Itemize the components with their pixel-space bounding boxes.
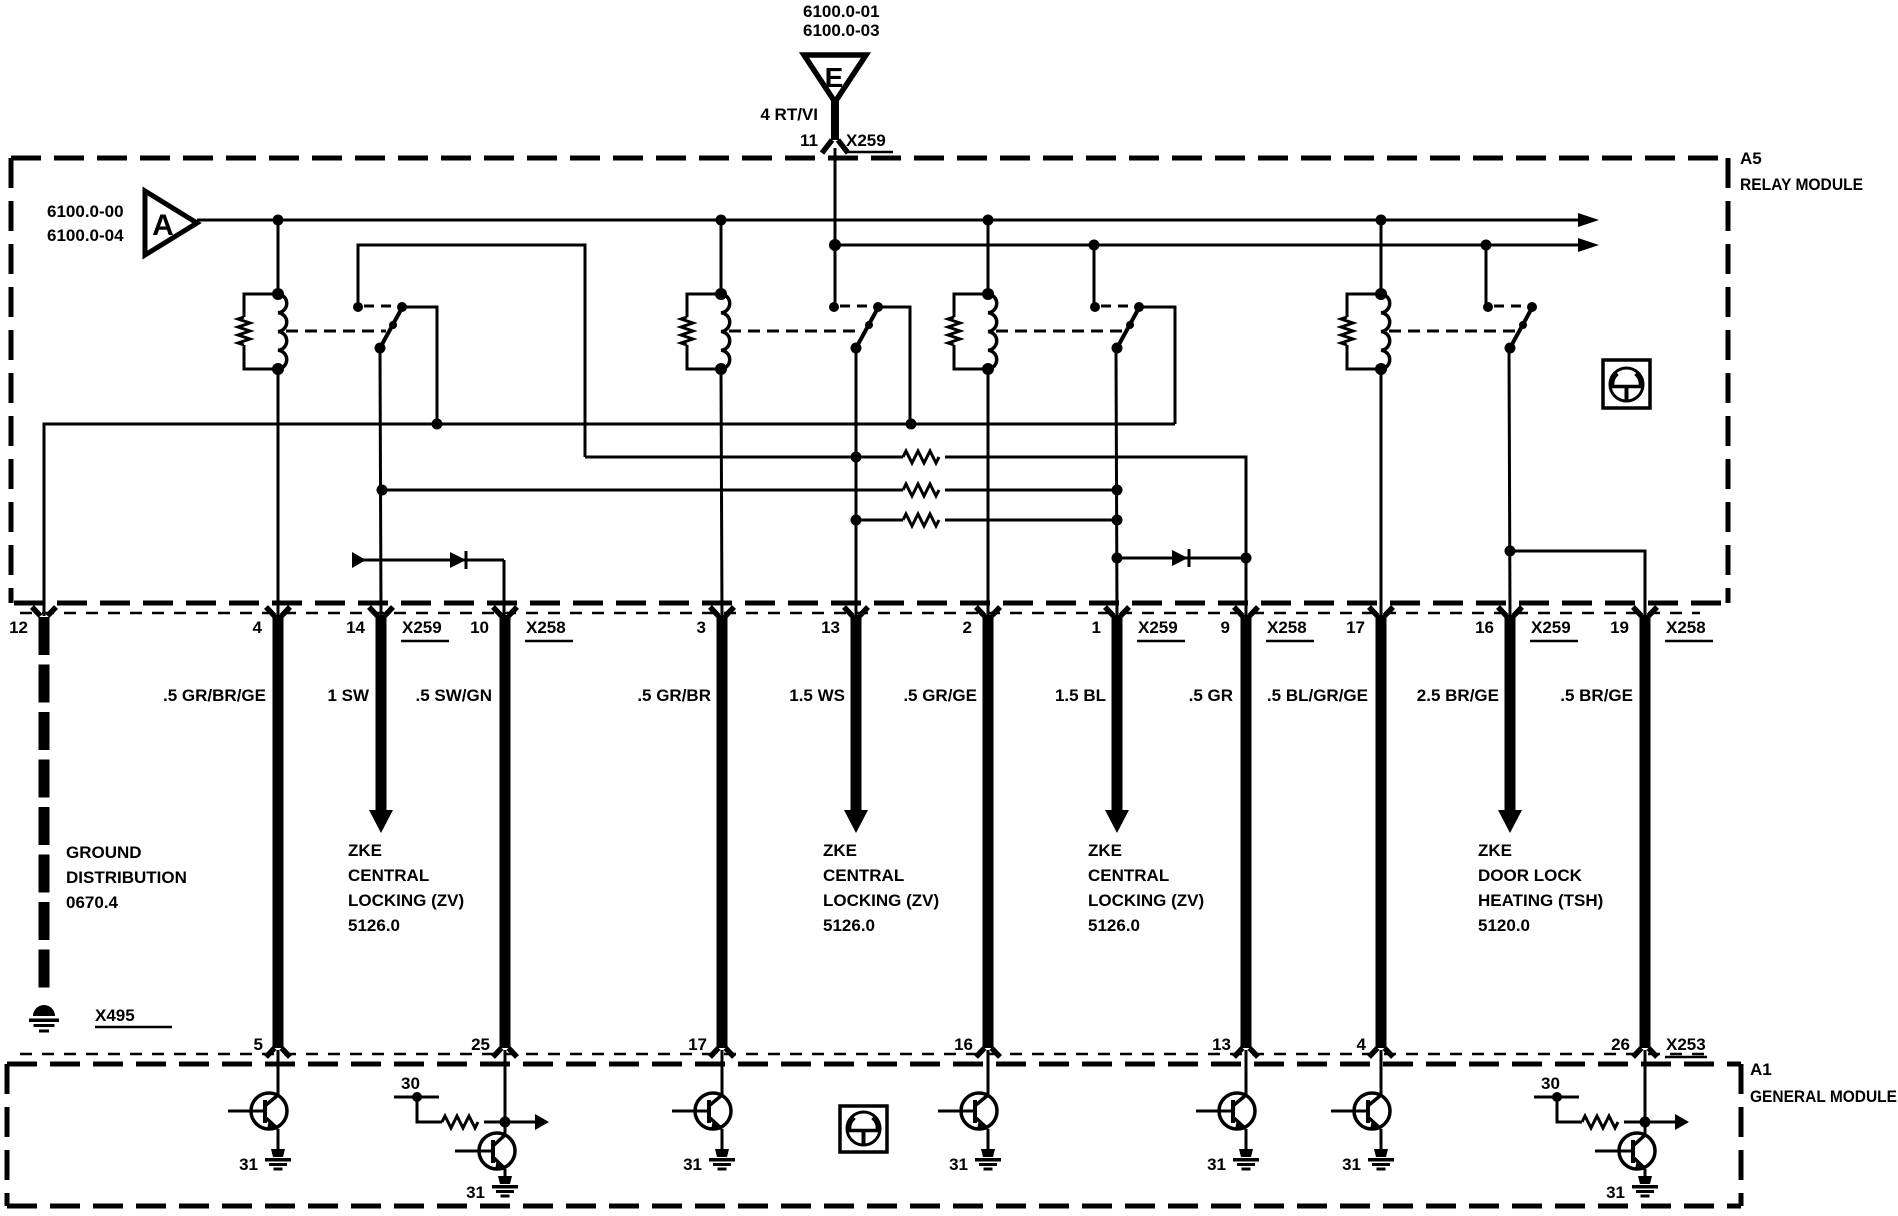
svg-text:5120.0: 5120.0: [1478, 916, 1530, 935]
wire K3 coil to pin 2: [987, 369, 990, 617]
connector pin 16 top fork: [1498, 607, 1522, 616]
svg-text:CENTRAL: CENTRAL: [348, 866, 429, 885]
bus line 2 from E: [835, 244, 1578, 247]
transistor Q4: [938, 1050, 997, 1150]
junction dots bus 2: [829, 239, 1492, 251]
wire thick x=278: [273, 615, 284, 1048]
svg-text:1: 1: [1092, 618, 1101, 637]
svg-text:16: 16: [954, 1035, 973, 1054]
resistor at base node of Q2: [417, 1097, 442, 1122]
svg-text:X253: X253: [1666, 1035, 1706, 1054]
svg-text:4: 4: [1357, 1035, 1367, 1054]
connector pin 12 top fork: [32, 607, 56, 616]
wire thick to ZKE arrow x=381: [376, 615, 387, 812]
wire K3 left contact up to bus 2: [1093, 245, 1096, 307]
module A5 dashed border: [11, 158, 1728, 603]
svg-text:25: 25: [471, 1035, 490, 1054]
connector pin 10 top fork: [493, 607, 517, 616]
wire K2 pivot to pin 13: [855, 348, 858, 617]
wire E into module down to bus 2: [834, 148, 837, 245]
svg-text:.5 BR/GE: .5 BR/GE: [1560, 686, 1633, 705]
wire K4 coil to pin 17: [1380, 369, 1383, 617]
wire thick x=1381: [1376, 615, 1387, 1048]
svg-text:6100.0-03: 6100.0-03: [803, 21, 880, 40]
wire thick x=722: [717, 615, 728, 1048]
wire K1 NO contact down to ground row: [402, 307, 437, 424]
svg-text:X259: X259: [846, 131, 886, 150]
wire K1 coil to pin 4: [277, 369, 280, 617]
connector strip dashed line (bottom): [20, 1053, 1710, 1056]
connector strip dashed line (top): [20, 612, 1700, 615]
relay K2 coil: [721, 294, 730, 369]
svg-text:10: 10: [470, 618, 489, 637]
wire K4 pivot to pins 16 and 19: [1510, 551, 1645, 616]
arrow feed into pin14 net: [352, 552, 366, 568]
svg-text:17: 17: [1346, 618, 1365, 637]
terminal 30 feed for Q7: [1534, 1096, 1579, 1099]
power triangle E: [804, 55, 866, 102]
svg-text:A5: A5: [1740, 149, 1762, 168]
steering wheel icon A5: [1603, 360, 1650, 408]
svg-text:6100.0-04: 6100.0-04: [47, 226, 124, 245]
svg-text:X258: X258: [1267, 618, 1307, 637]
svg-text:30: 30: [401, 1074, 420, 1093]
relay K2 parallel resistor: [687, 294, 721, 317]
connector pin 13 top fork: [844, 607, 868, 616]
connector pin 17 top fork: [1369, 607, 1393, 616]
svg-text:5126.0: 5126.0: [823, 916, 875, 935]
connector pin 1 top fork: [1105, 607, 1129, 616]
relay K4 switch alternate-position dashes: [1494, 305, 1522, 308]
diode D2 line pin1 to pin9: [1117, 557, 1246, 560]
relay K3 coil: [988, 294, 997, 369]
svg-text:1.5 WS: 1.5 WS: [789, 686, 845, 705]
ground symbol 31 for Q1: [265, 1149, 291, 1171]
svg-text:CENTRAL: CENTRAL: [823, 866, 904, 885]
wire K3 pivot to pin 1: [1116, 348, 1117, 617]
node dot and output arrow of Q2: [500, 1117, 511, 1128]
row 2 wire with resistor to pin 9: [585, 456, 903, 459]
svg-text:14: 14: [346, 618, 365, 637]
wire thick to ZKE arrow x=1510: [1505, 615, 1516, 812]
svg-text:E: E: [825, 62, 844, 93]
ground symbol 31 for Q5: [1233, 1149, 1259, 1171]
relay K1 switch arm: [380, 306, 403, 348]
connector pin 17 bottom fork: [710, 1048, 734, 1057]
power triangle A: [145, 191, 197, 255]
svg-text:31: 31: [239, 1155, 258, 1174]
node dot and output arrow of Q7: [1640, 1117, 1651, 1128]
svg-text:ZKE: ZKE: [348, 841, 382, 860]
svg-text:13: 13: [1212, 1035, 1231, 1054]
svg-text:31: 31: [683, 1155, 702, 1174]
svg-text:3: 3: [697, 618, 706, 637]
relay K1 coil: [278, 294, 287, 369]
wire K4 left contact up to bus 2: [1485, 245, 1488, 307]
svg-text:DISTRIBUTION: DISTRIBUTION: [66, 868, 187, 887]
svg-text:LOCKING (ZV): LOCKING (ZV): [823, 891, 939, 910]
ground symbol 31 for Q4: [975, 1149, 1001, 1171]
svg-text:ZKE: ZKE: [1088, 841, 1122, 860]
ground symbol X495: [29, 1005, 59, 1033]
relay K4 coil: [1381, 294, 1390, 369]
svg-text:4 RT/VI: 4 RT/VI: [760, 105, 818, 124]
relay K4 coil feed wire: [1380, 220, 1383, 294]
connector pin 9 top fork: [1234, 607, 1258, 616]
wire from pin into Q7: [1644, 1050, 1647, 1122]
ground row wire (row 1) to pin 12: [44, 424, 1175, 616]
connector pin 11 fork: [822, 140, 848, 153]
svg-text:DOOR LOCK: DOOR LOCK: [1478, 866, 1583, 885]
terminal 30 feed for Q2: [394, 1096, 439, 1099]
wire K4 pivot to pin 16: [1509, 348, 1510, 617]
transistor Q5: [1196, 1050, 1255, 1150]
svg-text:ZKE: ZKE: [823, 841, 857, 860]
diode D2: [1172, 550, 1188, 566]
svg-text:.5 GR/BR: .5 GR/BR: [637, 686, 711, 705]
junction dots bus 1: [273, 215, 1387, 226]
row 4 wire with resistor: [856, 519, 903, 522]
diode D1: [450, 552, 466, 568]
svg-text:.5 GR/GE: .5 GR/GE: [903, 686, 977, 705]
svg-text:12: 12: [9, 618, 28, 637]
transistor Q6: [1331, 1050, 1390, 1150]
relay K3 actuator dashed link: [996, 330, 1123, 333]
svg-text:.5 BL/GR/GE: .5 BL/GR/GE: [1267, 686, 1368, 705]
relay K1 switch alternate-position dashes: [364, 305, 392, 308]
svg-text:5: 5: [254, 1035, 263, 1054]
svg-text:X259: X259: [402, 618, 442, 637]
svg-text:31: 31: [466, 1183, 485, 1202]
wire pin 12 dashed ground lead: [39, 617, 50, 996]
relay K3 coil feed wire: [987, 220, 990, 294]
ground symbol 31 for Q2: [492, 1176, 518, 1198]
connector pin 5 bottom fork: [266, 1048, 290, 1057]
wire K1 left contact to bridge to row2: [358, 245, 585, 457]
svg-text:LOCKING (ZV): LOCKING (ZV): [348, 891, 464, 910]
svg-text:1 SW: 1 SW: [327, 686, 370, 705]
relay K1 actuator dashed link: [286, 330, 386, 333]
relay K3 parallel resistor: [954, 294, 988, 317]
steering wheel icon A1: [840, 1106, 887, 1152]
transistor Q1: [228, 1050, 287, 1150]
svg-text:6100.0-00: 6100.0-00: [47, 202, 124, 221]
svg-text:19: 19: [1610, 618, 1629, 637]
svg-text:13: 13: [821, 618, 840, 637]
connector pin 19 top fork: [1633, 607, 1657, 616]
svg-text:X495: X495: [95, 1006, 135, 1025]
svg-text:17: 17: [688, 1035, 707, 1054]
ground symbol 31 for Q3: [709, 1149, 735, 1171]
svg-text:31: 31: [1207, 1155, 1226, 1174]
module A1 dashed border: [7, 1064, 1741, 1206]
svg-text:5126.0: 5126.0: [1088, 916, 1140, 935]
connector pin 4 top fork: [266, 607, 290, 616]
svg-text:16: 16: [1475, 618, 1494, 637]
svg-text:1.5 BL: 1.5 BL: [1055, 686, 1106, 705]
wire K2 coil to pin 3: [721, 369, 722, 617]
relay K4 actuator dashed link: [1389, 330, 1516, 333]
svg-text:X259: X259: [1138, 618, 1178, 637]
svg-text:31: 31: [1342, 1155, 1361, 1174]
svg-text:ZKE: ZKE: [1478, 841, 1512, 860]
relay K4 switch arm: [1510, 306, 1533, 348]
connector pin 4 bottom fork: [1369, 1048, 1393, 1057]
connector pin 14 top fork: [369, 607, 393, 616]
relay K1 coil feed wire: [277, 220, 280, 294]
svg-text:4: 4: [253, 618, 263, 637]
wire K2 NO contact down to ground row: [878, 307, 910, 424]
diode D1 line to pin 10: [352, 560, 504, 616]
wire from pin into Q2: [504, 1050, 507, 1122]
svg-text:31: 31: [1606, 1183, 1625, 1202]
connector pin 2 top fork: [976, 607, 1000, 616]
wire thick x=505: [500, 615, 511, 1048]
wire thick to ZKE arrow x=856: [851, 615, 862, 812]
relay K4 parallel resistor: [1347, 294, 1381, 317]
wire K2 left contact up to E node: [834, 245, 837, 307]
wire K3 NO contact to ground row: [1139, 307, 1175, 424]
relay K2 actuator dashed link: [729, 330, 862, 333]
svg-text:.5 SW/GN: .5 SW/GN: [415, 686, 492, 705]
svg-text:.5 GR/BR/GE: .5 GR/BR/GE: [163, 686, 266, 705]
relay K1 parallel resistor: [244, 294, 278, 317]
svg-text:A: A: [152, 209, 174, 242]
svg-text:11: 11: [800, 131, 818, 150]
connector pin 16 bottom fork: [976, 1048, 1000, 1057]
svg-text:6100.0-01: 6100.0-01: [803, 2, 880, 21]
svg-text:26: 26: [1611, 1035, 1630, 1054]
svg-text:GROUND: GROUND: [66, 843, 142, 862]
svg-text:LOCKING (ZV): LOCKING (ZV): [1088, 891, 1204, 910]
relay K2 switch arm: [856, 306, 879, 348]
row 3 wire with resistor: [382, 489, 903, 492]
svg-text:30: 30: [1541, 1074, 1560, 1093]
svg-text:X259: X259: [1531, 618, 1571, 637]
connector pin 3 top fork: [710, 607, 734, 616]
svg-text:X258: X258: [526, 618, 566, 637]
svg-text:X258: X258: [1666, 618, 1706, 637]
ground symbol 31 for Q7: [1632, 1176, 1658, 1198]
svg-text:9: 9: [1221, 618, 1230, 637]
relay K3 switch alternate-position dashes: [1101, 305, 1129, 308]
relay K2 switch alternate-position dashes: [840, 305, 868, 308]
wire E thick lead: [831, 100, 839, 140]
wire thick x=1645: [1640, 615, 1651, 1048]
svg-text:CENTRAL: CENTRAL: [1088, 866, 1169, 885]
connector pin 26 bottom fork: [1633, 1048, 1657, 1057]
wire K1 pivot to pin 14: [380, 348, 381, 617]
relay K2 coil feed wire: [720, 220, 723, 294]
svg-text:.5 GR: .5 GR: [1189, 686, 1233, 705]
svg-text:RELAY MODULE: RELAY MODULE: [1740, 175, 1863, 194]
wire thick x=1246: [1241, 615, 1252, 1048]
connector pin 13 bottom fork: [1234, 1048, 1258, 1057]
transistor Q2: [455, 1122, 515, 1177]
svg-text:31: 31: [949, 1155, 968, 1174]
svg-text:0670.4: 0670.4: [66, 893, 119, 912]
wire thick x=988: [983, 615, 994, 1048]
svg-text:2: 2: [963, 618, 972, 637]
svg-text:HEATING (TSH): HEATING (TSH): [1478, 891, 1603, 910]
wire thick to ZKE arrow x=1117: [1112, 615, 1123, 812]
svg-text:5126.0: 5126.0: [348, 916, 400, 935]
svg-text:A1: A1: [1750, 1060, 1772, 1079]
transistor Q3: [672, 1050, 731, 1150]
relay K3 switch arm: [1117, 306, 1140, 348]
bus line 1 from triangle A: [197, 219, 1578, 222]
ground symbol 31 for Q6: [1368, 1149, 1394, 1171]
svg-text:GENERAL MODULE: GENERAL MODULE: [1750, 1087, 1897, 1106]
transistor Q7: [1595, 1122, 1655, 1177]
connector pin 25 bottom fork: [493, 1048, 517, 1057]
resistor at base node of Q7: [1557, 1097, 1582, 1122]
svg-text:2.5 BR/GE: 2.5 BR/GE: [1417, 686, 1499, 705]
